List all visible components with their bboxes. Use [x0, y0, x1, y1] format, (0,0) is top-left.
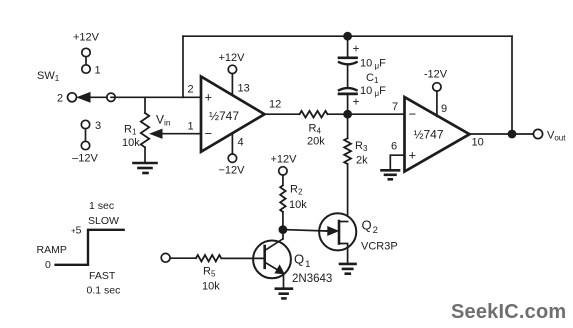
svg-text:VCR3P: VCR3P — [361, 241, 398, 253]
ground below Q2 — [340, 264, 356, 274]
svg-text:10: 10 — [472, 137, 484, 149]
wire R5 to Q1 base — [222, 257, 265, 259]
wire top feedback horizontal — [183, 35, 512, 37]
logo SeekIC.com — [451, 301, 566, 323]
node junction R2/Q1 collector/Q2 gate — [279, 225, 288, 234]
wire right feedback drop — [511, 36, 513, 134]
svg-text:2N3643: 2N3643 — [292, 273, 332, 285]
pin 4 -12V supply U1 — [219, 133, 246, 176]
svg-text:12: 12 — [269, 99, 281, 111]
svg-text:−: − — [205, 126, 213, 141]
label +5 — [71, 225, 82, 237]
capacitor C1 lower 10uF — [339, 85, 386, 114]
resistor R4 20k — [300, 111, 328, 148]
svg-text:6: 6 — [391, 141, 397, 153]
wire U2 output — [470, 133, 534, 135]
node Vout terminal — [533, 129, 566, 142]
resistor R2 10k — [280, 184, 307, 230]
svg-text:0: 0 — [45, 259, 51, 271]
svg-text:+: + — [353, 42, 360, 56]
ground at U2 pin 6 — [382, 170, 400, 179]
svg-text:2k: 2k — [356, 155, 368, 167]
node -12V terminal SW1 bottom — [72, 120, 101, 165]
node junction top wire / C1 — [343, 32, 352, 41]
label 0.1 sec — [87, 285, 121, 297]
wire to R5 — [170, 257, 196, 259]
wire R2 top supply — [271, 154, 298, 186]
svg-text:2: 2 — [188, 84, 194, 96]
svg-text:½747: ½747 — [209, 109, 239, 123]
wire gate of Q2 — [283, 230, 326, 231]
resistor R3 2k — [344, 114, 368, 214]
node input terminal left of R5 — [161, 253, 170, 262]
svg-text:−12V: −12V — [219, 165, 246, 177]
svg-text:SW1: SW1 — [37, 70, 60, 83]
svg-text:R1: R1 — [124, 124, 137, 137]
svg-text:Q2: Q2 — [362, 218, 378, 237]
svg-text:+: + — [353, 95, 360, 109]
svg-text:-12V: -12V — [424, 69, 448, 81]
svg-text:2: 2 — [57, 93, 63, 105]
label FAST — [89, 270, 116, 282]
svg-text:10k: 10k — [202, 281, 220, 293]
transistor Q2 VCR3P JFET — [319, 213, 398, 262]
transistor Q1 2N3643 — [253, 230, 332, 288]
svg-text:3: 3 — [95, 120, 101, 132]
svg-text:+12V: +12V — [271, 154, 298, 166]
potentiometer R1 10k — [122, 113, 201, 163]
svg-text:SeekIC.com: SeekIC.com — [451, 301, 566, 323]
pin 9 -12V supply U2 — [424, 69, 448, 117]
node output junction — [508, 130, 517, 139]
pin 13 +12V supply U1 — [219, 52, 250, 95]
svg-text:10 μF: 10 μF — [360, 58, 386, 71]
switch SW1 — [37, 70, 115, 105]
svg-text:FAST: FAST — [89, 270, 116, 282]
svg-text:10k: 10k — [289, 199, 307, 211]
op-amp U2 half 747 — [391, 97, 484, 171]
wire U1 output to R4 — [265, 113, 300, 115]
svg-text:Vout: Vout — [547, 130, 566, 143]
svg-text:9: 9 — [441, 103, 447, 115]
waveform ramp step — [56, 230, 124, 265]
wire pot top connection — [144, 97, 146, 113]
svg-text:7: 7 — [392, 101, 398, 113]
capacitor C1 upper 10uF — [339, 36, 386, 87]
label 1 sec — [89, 200, 114, 212]
svg-text:C1: C1 — [366, 72, 379, 85]
svg-text:RAMP: RAMP — [37, 244, 67, 256]
svg-text:R2: R2 — [290, 184, 303, 197]
svg-text:SLOW: SLOW — [88, 215, 119, 227]
svg-text:–12V: –12V — [72, 153, 98, 165]
svg-text:10k: 10k — [122, 137, 140, 149]
svg-text:R4: R4 — [309, 123, 322, 136]
svg-text:Q1: Q1 — [294, 252, 310, 271]
op-amp U1 half 747 — [188, 77, 282, 152]
pin 6 ground wire U2 — [390, 155, 404, 169]
node +12V terminal SW1 top — [73, 32, 101, 77]
label SLOW — [88, 215, 119, 227]
svg-text:+: + — [409, 148, 417, 163]
svg-text:1 sec: 1 sec — [89, 200, 114, 212]
node junction R4/R3/C1 — [343, 110, 352, 119]
svg-text:4: 4 — [238, 137, 244, 149]
svg-text:1: 1 — [95, 65, 101, 77]
resistor R5 10k — [196, 255, 221, 292]
svg-text:+: + — [205, 90, 213, 105]
svg-text:R5: R5 — [203, 266, 216, 279]
wire left feedback drop to pin2 — [182, 36, 184, 97]
wire R4 to U2 pin7 — [328, 113, 405, 115]
svg-text:+12V: +12V — [73, 32, 100, 44]
wire switch pole to op-amp pin2 — [111, 96, 201, 98]
label RAMP — [37, 244, 67, 256]
svg-text:−: − — [409, 107, 417, 122]
ground below R1 — [134, 163, 157, 173]
svg-text:Vin: Vin — [156, 113, 171, 128]
svg-text:+12V: +12V — [219, 52, 246, 64]
svg-text:10 μF: 10 μF — [360, 85, 386, 98]
svg-text:½747: ½747 — [414, 128, 444, 142]
svg-text:13: 13 — [238, 83, 250, 95]
svg-text:0.1 sec: 0.1 sec — [87, 285, 121, 297]
ground below Q1 — [276, 289, 292, 299]
svg-text:20k: 20k — [307, 136, 325, 148]
svg-text:1: 1 — [188, 121, 194, 133]
label 0 — [45, 259, 51, 271]
svg-text:R3: R3 — [355, 140, 368, 153]
svg-text:+5: +5 — [71, 225, 82, 237]
